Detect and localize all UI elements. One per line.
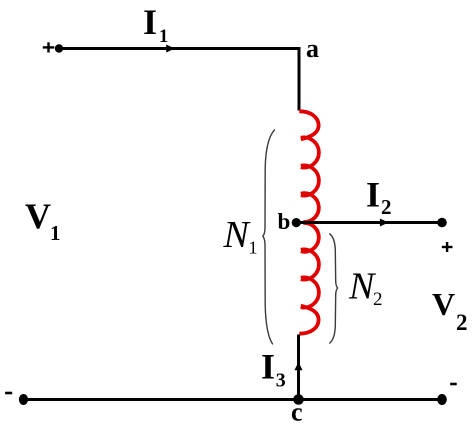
svg-text:1: 1 [159, 27, 168, 47]
bottom wire [24, 398, 443, 401]
svg-text:1: 1 [249, 237, 258, 257]
minus sign bottom-right [450, 383, 457, 386]
svg-text:2: 2 [381, 195, 392, 219]
svg-text:I: I [261, 347, 275, 387]
svg-text:V: V [25, 196, 51, 236]
brace N1 (left curly brace spanning whole coil) [263, 130, 275, 345]
output terminal dot right (V2 plus) [437, 218, 447, 228]
svg-text:V: V [432, 286, 455, 322]
svg-text:c: c [291, 398, 303, 427]
wire from node b to right output terminal [297, 221, 443, 224]
node c dot [293, 394, 304, 405]
svg-text:N: N [223, 214, 252, 256]
plus sign top-left terminal [43, 42, 54, 52]
svg-text:1: 1 [50, 221, 61, 245]
node dot top-left input terminal [55, 44, 63, 52]
arrowhead I1 on top wire [166, 45, 175, 53]
minus sign bottom-left [5, 392, 12, 395]
wire top: from input terminal right, corner down to node a [59, 49, 299, 111]
wire from coil bottom down to node c [297, 335, 300, 400]
brace N2 (right curly brace spanning lower half of coil) [329, 234, 337, 344]
node b dot [292, 218, 301, 227]
bottom-right terminal dot [437, 394, 447, 405]
svg-text:a: a [306, 34, 319, 63]
svg-text:I: I [366, 175, 380, 215]
svg-text:b: b [278, 209, 291, 234]
svg-text:2: 2 [373, 289, 383, 310]
bottom-left terminal dot [19, 394, 28, 405]
arrowhead I3 (pointing up) [294, 362, 302, 370]
coil winding (8 loops, red) between node a and node c [299, 111, 319, 333]
arrowhead I2 on b wire [380, 219, 389, 227]
svg-text:I: I [143, 2, 157, 42]
plus sign right terminal [442, 242, 453, 252]
svg-text:3: 3 [276, 370, 286, 392]
svg-text:2: 2 [456, 310, 468, 335]
